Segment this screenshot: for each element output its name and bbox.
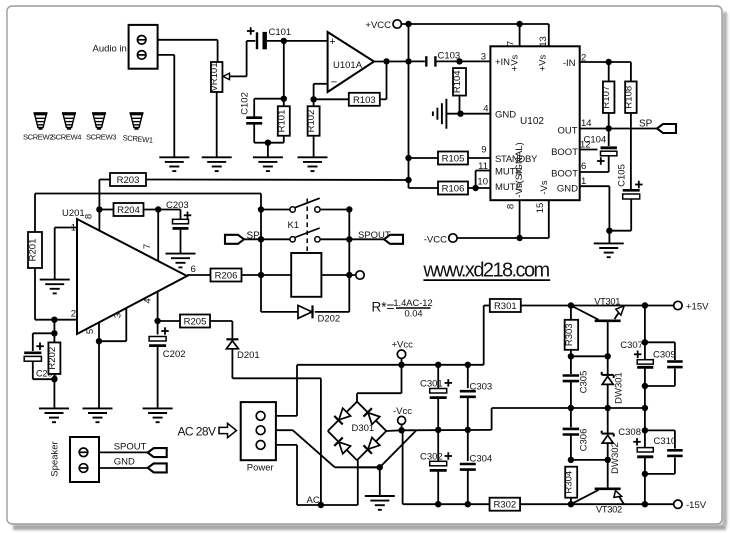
wire audio pin2 to ground bbox=[158, 55, 175, 157]
wire -Vcc mid row bbox=[402, 408, 571, 430]
wire K1 left column bbox=[260, 210, 262, 312]
node pins3/5 junction bbox=[96, 338, 102, 344]
label C201 plus bbox=[36, 342, 44, 350]
svg-text:R205: R205 bbox=[184, 317, 207, 328]
tag SPOUT speaker bbox=[148, 448, 167, 457]
wire R105 left bbox=[409, 157, 439, 159]
node AC junction bbox=[318, 502, 324, 508]
label +Vs pin7 bbox=[510, 54, 521, 71]
wire R102 top stub bbox=[313, 99, 315, 106]
pin 3 label U201 bbox=[113, 313, 124, 318]
label SCREW3 bbox=[86, 133, 116, 142]
label AC bbox=[307, 495, 320, 506]
label SPOUT at K1 bbox=[358, 230, 391, 241]
svg-text:GND: GND bbox=[495, 110, 516, 121]
label C101 plus bbox=[247, 27, 255, 35]
potentiometer VR101 bbox=[209, 62, 222, 92]
capacitor C310 bbox=[645, 430, 683, 474]
resistor R204 bbox=[114, 203, 144, 216]
node DW302 base link junction bbox=[605, 457, 611, 463]
svg-text:OUT: OUT bbox=[557, 126, 577, 137]
relay coil K1 bbox=[291, 253, 321, 297]
terminal -Vcc bbox=[398, 416, 406, 424]
wire R202 bottom bbox=[53, 374, 55, 408]
svg-text:C302: C302 bbox=[420, 452, 443, 463]
wire power pin1 to +Vcc node bbox=[276, 365, 402, 416]
wire pin4 column bbox=[157, 292, 159, 335]
resistor R201 bbox=[28, 232, 43, 268]
screw SCREW4 symbol bbox=[62, 113, 76, 129]
svg-text:R302: R302 bbox=[493, 500, 516, 511]
svg-text:R303: R303 bbox=[564, 323, 575, 346]
label OUT bbox=[557, 126, 577, 137]
svg-text:C301: C301 bbox=[420, 379, 443, 390]
node pin7 junction bbox=[155, 206, 161, 212]
label SP at K1 bbox=[247, 231, 261, 242]
svg-text:C304: C304 bbox=[470, 454, 493, 465]
wire VR101 to ground bbox=[216, 92, 218, 157]
wire C104 top stub bbox=[608, 129, 610, 147]
wire C203 to ground bbox=[180, 229, 182, 254]
pin 6 label U201 bbox=[191, 264, 196, 275]
svg-text:-IN: -IN bbox=[563, 58, 576, 69]
svg-text:+Vcc: +Vcc bbox=[392, 340, 414, 351]
tag SPOUT bbox=[384, 235, 403, 244]
ground R102 bbox=[298, 157, 328, 171]
svg-text:7: 7 bbox=[142, 244, 153, 249]
wire pin7 column bbox=[157, 210, 159, 262]
svg-text:3: 3 bbox=[113, 313, 124, 318]
pin 7 label bbox=[506, 41, 517, 46]
capacitor C303 bbox=[460, 365, 476, 430]
tag GND speaker bbox=[148, 463, 167, 472]
node C302 bottom junction bbox=[435, 501, 441, 507]
wire bottom switch right bbox=[320, 238, 349, 240]
wire pin1 to ground bbox=[580, 186, 610, 243]
svg-text:7: 7 bbox=[506, 41, 517, 46]
label C203 bbox=[166, 200, 189, 211]
transistor VT301 bbox=[571, 306, 624, 321]
wire R107 bottom stub bbox=[608, 113, 610, 129]
pin 9 label bbox=[481, 145, 486, 156]
wire +Vcc to bridge top bbox=[357, 365, 402, 402]
wire C103 to pin3 bbox=[435, 60, 490, 62]
svg-text:2: 2 bbox=[71, 309, 76, 320]
svg-text:4: 4 bbox=[483, 104, 488, 115]
label DW301 bbox=[613, 372, 624, 404]
wire pin2 column down bbox=[53, 320, 55, 343]
node C303 top junction bbox=[465, 362, 471, 368]
screw SCREW1 symbol bbox=[130, 113, 144, 129]
label C308 plus bbox=[633, 438, 641, 446]
node C301 top junction bbox=[435, 362, 441, 368]
capacitor C203 bbox=[173, 219, 189, 228]
wire relay to terminal bbox=[321, 274, 355, 276]
label C201 bbox=[36, 369, 58, 379]
label C309 bbox=[653, 350, 676, 361]
svg-text:-15V: -15V bbox=[686, 500, 707, 511]
resistor R303 bbox=[564, 320, 578, 350]
svg-text:VT302: VT302 bbox=[596, 505, 622, 515]
wire bottom vertex column bbox=[357, 460, 359, 505]
pin 10 label bbox=[477, 177, 488, 188]
label STANDBY bbox=[495, 154, 538, 165]
wire U201 pin1 to ground bbox=[55, 228, 77, 280]
ground R202 bbox=[39, 408, 69, 422]
capacitor C104 bbox=[601, 148, 617, 156]
label -Vcc bbox=[393, 406, 412, 417]
svg-text:VR101: VR101 bbox=[209, 62, 220, 91]
svg-text:R106: R106 bbox=[442, 184, 465, 195]
svg-text:C202: C202 bbox=[163, 349, 186, 360]
svg-text:R105: R105 bbox=[442, 154, 465, 165]
pin 11 label bbox=[478, 161, 488, 172]
ground VR101 bbox=[202, 157, 232, 171]
wire junction to ground bbox=[267, 143, 269, 158]
resistor R105 bbox=[438, 152, 468, 165]
terminal +Vcc bbox=[397, 350, 405, 358]
wire R205 right bbox=[210, 321, 232, 338]
svg-text:SPOUT: SPOUT bbox=[114, 441, 147, 452]
svg-text:AC 28V: AC 28V bbox=[178, 425, 217, 439]
pin 13 label bbox=[538, 36, 549, 47]
svg-text:C308: C308 bbox=[618, 427, 641, 438]
tag SP input bbox=[225, 235, 244, 244]
label C301 plus bbox=[445, 379, 453, 387]
svg-text:DW302: DW302 bbox=[610, 442, 621, 474]
node R101 top junction bbox=[281, 96, 287, 102]
pin 5 label U201 bbox=[85, 329, 96, 334]
label C101 bbox=[269, 27, 292, 38]
svg-text:C310: C310 bbox=[654, 436, 677, 447]
capacitor C309 bbox=[645, 342, 683, 386]
node center-tap ground junction bbox=[377, 464, 383, 470]
label C105 bbox=[617, 164, 628, 187]
svg-text:K1: K1 bbox=[288, 220, 300, 231]
node C308 bottom junction bbox=[642, 471, 648, 477]
wire D201 to AC node bbox=[232, 349, 321, 506]
terminal relay output bbox=[356, 271, 364, 279]
svg-text:+15V: +15V bbox=[686, 302, 709, 313]
node R206 row right junction bbox=[346, 272, 352, 278]
capacitor C201 bbox=[24, 353, 41, 361]
pin 14 label bbox=[581, 118, 592, 129]
zener DW302 bbox=[602, 408, 614, 488]
svg-text:C303: C303 bbox=[470, 382, 493, 393]
wire pin12 stub bbox=[580, 149, 598, 151]
svg-text:−: − bbox=[331, 77, 337, 89]
node K1 right top junction bbox=[346, 206, 352, 212]
svg-text:15: 15 bbox=[535, 203, 546, 214]
label C304 bbox=[470, 454, 493, 465]
connector Audio in bbox=[129, 25, 158, 69]
label Audio in bbox=[93, 44, 127, 55]
terminal +15V bbox=[674, 301, 682, 309]
node +Vcc junction bbox=[398, 362, 404, 368]
ground center-tap bbox=[365, 496, 395, 510]
resistor R304 bbox=[564, 467, 578, 498]
wire GND bbox=[99, 467, 148, 469]
wire R205 left bbox=[158, 320, 180, 322]
node pin4/R205 junction bbox=[154, 318, 160, 324]
wire -Vcc column down bbox=[403, 430, 439, 504]
node C308 bottom row junction bbox=[642, 501, 648, 507]
wire C101 to node A bbox=[267, 40, 328, 42]
wire R204 right bbox=[144, 209, 181, 211]
label C310 bbox=[654, 436, 677, 447]
resistor R301 bbox=[490, 299, 521, 312]
node K1 right bottom junction bbox=[346, 236, 352, 242]
resistor R205 bbox=[180, 315, 210, 328]
screw SCREW2 symbol bbox=[34, 113, 48, 129]
svg-text:D202: D202 bbox=[318, 314, 341, 325]
svg-text:3: 3 bbox=[481, 52, 486, 63]
label C303 bbox=[470, 382, 493, 393]
node C307 bottom junction bbox=[642, 405, 648, 411]
capacitor C301 bbox=[430, 365, 447, 430]
wire D202 row bbox=[261, 311, 349, 313]
svg-text:4: 4 bbox=[143, 298, 154, 303]
svg-text:-Vs(SIGNAL): -Vs(SIGNAL) bbox=[514, 142, 525, 197]
wire R101 bottom bbox=[268, 136, 284, 143]
wire R102 to ground bbox=[313, 136, 315, 158]
connector Power bbox=[241, 402, 276, 460]
terminal -VCC bbox=[449, 234, 457, 242]
label C305 bbox=[578, 371, 589, 394]
svg-text:Speaker: Speaker bbox=[49, 441, 60, 476]
pin 8 label U201 bbox=[84, 214, 95, 219]
wire R303 to base link bbox=[571, 355, 608, 357]
wire R303 bottom bbox=[570, 350, 572, 374]
svg-text:C305: C305 bbox=[578, 371, 589, 394]
svg-text:C203: C203 bbox=[166, 200, 189, 211]
pin 2 label U201 bbox=[71, 309, 76, 320]
wire +VCC rail bbox=[401, 24, 548, 46]
pin 3 label bbox=[481, 52, 486, 63]
label SCREW2 bbox=[23, 133, 53, 142]
node R203 wire junction bbox=[405, 177, 411, 183]
screw SCREW3 symbol bbox=[92, 113, 106, 129]
label -Vs(SIGNAL) rotated bbox=[514, 142, 525, 197]
wire U201 pins3/5 bbox=[99, 308, 126, 408]
VR101 wiper arrow bbox=[223, 41, 255, 80]
node C307/C309 top junction bbox=[642, 339, 648, 345]
label C202 plus bbox=[161, 327, 169, 335]
capacitor C302 bbox=[430, 430, 447, 504]
wire -Vcc stem bbox=[401, 424, 403, 430]
label C102 bbox=[239, 92, 250, 115]
label C302 plus bbox=[445, 452, 453, 460]
svg-text:R108: R108 bbox=[623, 86, 634, 109]
node C201 top junction bbox=[51, 330, 57, 336]
node +VCC/column junction bbox=[405, 21, 411, 27]
label VT301 bbox=[594, 297, 620, 307]
label SCREW1 bbox=[122, 133, 153, 145]
svg-text:BOOT: BOOT bbox=[551, 169, 578, 180]
wire R105 to pin9 bbox=[468, 157, 490, 159]
svg-text:Audio in: Audio in bbox=[93, 44, 127, 55]
wire R104 bottom bbox=[459, 96, 461, 114]
label BOOT pin6 bbox=[551, 169, 578, 180]
node C305 bottom junction bbox=[568, 405, 574, 411]
capacitor C101 bbox=[257, 32, 267, 49]
wire pin4 row bbox=[446, 113, 490, 115]
svg-text:0.04: 0.04 bbox=[404, 309, 422, 319]
wire mid-right row bbox=[571, 407, 645, 409]
wire pin2 row bbox=[580, 62, 631, 82]
resistor R203 bbox=[110, 173, 146, 186]
label BOOT pin12 bbox=[551, 147, 578, 158]
wire node A down to R101 bbox=[283, 41, 285, 106]
wire R206 to relay bbox=[242, 274, 292, 276]
label SPOUT speaker bbox=[114, 441, 147, 452]
tag SP output bbox=[657, 124, 676, 133]
capacitor C105 bbox=[623, 190, 640, 199]
text www.xd218.com bbox=[422, 260, 550, 282]
svg-text:+VCC: +VCC bbox=[365, 20, 391, 31]
label GND pin1 bbox=[557, 184, 578, 195]
node C308 top junction bbox=[642, 427, 648, 433]
wire pin11 jog bbox=[476, 171, 491, 189]
svg-text:R206: R206 bbox=[215, 271, 238, 282]
node R304 top junction bbox=[568, 457, 574, 463]
wire audio pin1 to VR101 bbox=[158, 40, 218, 62]
svg-text:C309: C309 bbox=[653, 350, 676, 361]
svg-text:13: 13 bbox=[538, 36, 549, 47]
svg-text:9: 9 bbox=[481, 145, 486, 156]
node pin2 junction bbox=[51, 317, 57, 323]
capacitor C102 bbox=[246, 118, 262, 124]
label -VCC bbox=[424, 235, 447, 246]
label C105 plus bbox=[635, 181, 643, 189]
wire K1 feed row bbox=[35, 194, 261, 233]
label C302 bbox=[420, 452, 443, 463]
svg-text:VT301: VT301 bbox=[594, 297, 620, 307]
label C301 bbox=[420, 379, 443, 390]
wire OUT row bbox=[580, 128, 657, 130]
capacitor C308 bbox=[637, 408, 653, 504]
label D202 bbox=[318, 314, 341, 325]
zener DW301 bbox=[602, 372, 614, 408]
svg-text:R203: R203 bbox=[117, 175, 140, 186]
label MUTE1 bbox=[495, 167, 522, 178]
label -Vs pin15 rotated bbox=[539, 180, 550, 195]
wire C104 bottom to pin6 bbox=[580, 156, 609, 172]
svg-text:C102: C102 bbox=[239, 92, 250, 115]
svg-text:DW301: DW301 bbox=[613, 372, 624, 404]
label GND speaker bbox=[114, 456, 135, 467]
node A junction bbox=[281, 38, 287, 44]
node base link junction bbox=[605, 353, 611, 359]
resistor R202 bbox=[47, 342, 61, 374]
pin 1 label U201 bbox=[71, 223, 76, 234]
node R303 top junction bbox=[568, 302, 574, 308]
pin 4 label bbox=[483, 104, 488, 115]
node C307/C309 bottom junction bbox=[642, 383, 648, 389]
op-amp U201 bbox=[62, 208, 187, 334]
svg-text:R304: R304 bbox=[564, 471, 575, 494]
svg-text:GND: GND bbox=[114, 456, 135, 467]
connector Speaker bbox=[70, 437, 99, 482]
svg-text:R104: R104 bbox=[452, 70, 463, 93]
svg-text:C306: C306 bbox=[578, 429, 589, 452]
node DW301 bottom junction bbox=[605, 405, 611, 411]
svg-text:R103: R103 bbox=[353, 95, 376, 106]
wire top switch right bbox=[320, 209, 349, 211]
svg-text:D201: D201 bbox=[237, 350, 260, 361]
svg-text:R204: R204 bbox=[117, 205, 140, 216]
svg-text:+: + bbox=[329, 36, 335, 48]
svg-text:C104: C104 bbox=[584, 135, 607, 146]
node C201 bottom junction bbox=[51, 376, 57, 382]
label -15V bbox=[686, 500, 707, 511]
label Speaker bbox=[49, 441, 60, 476]
label SCREW4 bbox=[51, 133, 81, 142]
node C304 top junction bbox=[465, 427, 471, 433]
node OUT junction bbox=[606, 125, 612, 131]
wire power pin2 diagonal bbox=[276, 430, 380, 467]
node K1 left top junction bbox=[258, 206, 264, 212]
wire R203 right long bbox=[146, 179, 409, 182]
label DW302 bbox=[610, 442, 621, 474]
svg-text:R202: R202 bbox=[47, 347, 58, 370]
svg-text:SCREW2: SCREW2 bbox=[23, 133, 53, 142]
wire to SPOUT tag bbox=[349, 238, 384, 240]
svg-text:8: 8 bbox=[506, 204, 517, 209]
ground IC bbox=[594, 243, 624, 257]
diode D201 bbox=[226, 339, 238, 349]
node C307 top junction bbox=[642, 302, 648, 308]
label C103 bbox=[438, 51, 461, 62]
wire C203 stem top bbox=[180, 210, 182, 220]
ground C202 bbox=[143, 408, 173, 422]
svg-text:6: 6 bbox=[191, 264, 196, 275]
resistor R104 bbox=[452, 68, 466, 96]
ground R101/C102 bbox=[253, 157, 283, 171]
wire -VCC row bbox=[457, 200, 549, 238]
label K1 bbox=[288, 220, 300, 231]
capacitor C306 bbox=[563, 408, 580, 460]
label C308 bbox=[618, 427, 641, 438]
node R304 bottom junction bbox=[568, 501, 574, 507]
svg-text:U201: U201 bbox=[62, 208, 85, 219]
label MUTE2 bbox=[495, 182, 522, 193]
wire +Vcc row bbox=[402, 306, 484, 365]
node feedback top junction bbox=[383, 58, 389, 64]
node R303 bottom junction bbox=[568, 353, 574, 359]
label D301 bbox=[352, 423, 375, 434]
wire C201 bottom bbox=[33, 362, 55, 380]
terminal -15V bbox=[674, 500, 682, 508]
wire R301 left bbox=[484, 305, 490, 307]
label C104 bbox=[584, 135, 607, 146]
resistor R102 bbox=[306, 106, 320, 136]
label C203 plus bbox=[184, 212, 192, 220]
wire R303 top stub bbox=[570, 306, 572, 320]
svg-text:GND: GND bbox=[557, 184, 578, 195]
svg-text:R*=: R*= bbox=[372, 300, 395, 315]
svg-text:5: 5 bbox=[85, 329, 96, 334]
svg-text:R107: R107 bbox=[601, 86, 612, 109]
label +IN bbox=[495, 57, 510, 68]
label +Vcc bbox=[392, 340, 414, 351]
diode D202 bbox=[298, 305, 313, 318]
wire VT301 base stem bbox=[607, 321, 609, 375]
wire center tap to ground dot bbox=[358, 466, 380, 468]
node pin8 column junction bbox=[96, 206, 102, 212]
pin 1 label bbox=[581, 176, 586, 187]
wire R203 left bbox=[99, 180, 110, 231]
